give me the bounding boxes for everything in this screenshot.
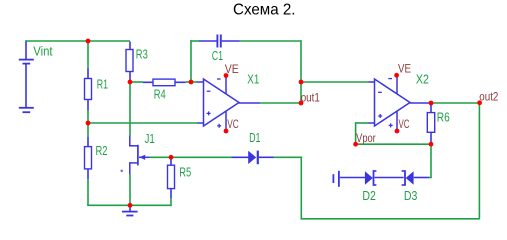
svg-text:J1: J1: [145, 132, 155, 146]
wire battery top stub: [25, 40, 27, 42]
wire R5 bottom lead: [170, 199, 172, 207]
svg-text:VC: VC: [227, 119, 239, 131]
diode D2: [365, 170, 377, 186]
wire R1 bottom lead: [87, 111, 89, 124]
diode D3: [402, 170, 414, 186]
wire C1 top left: [190, 40, 199, 42]
transistor J1: [129, 136, 150, 175]
wire C1 riser left: [190, 40, 192, 82]
node Vpor: [353, 142, 358, 147]
op-amp X2 polarity marks: [378, 79, 393, 128]
resistor R5: [168, 159, 175, 199]
wire right edge riser: [478, 103, 480, 219]
node VE pin X2: [394, 73, 399, 78]
node ground junction: [128, 203, 133, 208]
wire X2 plus riser: [355, 122, 357, 144]
wire out2 row: [431, 102, 480, 104]
wire out1 riser: [300, 40, 302, 103]
wire gate row: [150, 156, 232, 158]
wire right riser to bottom rail: [300, 157, 302, 219]
resistor R1: [85, 68, 92, 111]
svg-text:C1: C1: [212, 49, 223, 63]
wire R1 top lead: [87, 40, 89, 68]
wire D3 right lead: [414, 177, 429, 179]
wire X2 minus input: [301, 81, 369, 83]
wire bottom left rail: [87, 204, 171, 206]
op-amp X2: [369, 75, 430, 131]
capacitor C1: [199, 35, 240, 48]
wire node R3/R4 to R4: [130, 81, 143, 83]
wire Vpor row: [356, 143, 431, 145]
svg-text:R3: R3: [136, 48, 148, 62]
node out2: [477, 100, 482, 105]
node plus rail left: [86, 121, 91, 126]
battery Vint: [19, 42, 34, 112]
node VC pin X2: [395, 129, 400, 134]
ground: [122, 205, 138, 215]
wire J1 drain riser: [129, 82, 131, 136]
svg-text:D2: D2: [362, 189, 376, 203]
svg-text:VC: VC: [399, 119, 410, 131]
node R5 top: [169, 155, 174, 160]
node VE pin X1: [224, 73, 229, 78]
wire bottom rail: [301, 218, 480, 220]
stray dot mark: [121, 170, 123, 172]
resistor R2: [85, 137, 92, 179]
wire C1 top right: [240, 40, 302, 42]
svg-text:R6: R6: [437, 110, 450, 124]
transistor J1 gate arrow: [139, 155, 145, 160]
node VC pin X1: [224, 129, 229, 134]
wire D3 riser: [430, 144, 432, 177]
svg-text:X1: X1: [247, 73, 259, 87]
op-amp X1 polarity marks: [207, 79, 222, 128]
node inverting input X1: [189, 80, 194, 85]
wire X1 plus input rail: [88, 122, 198, 124]
node top rail R1: [86, 39, 91, 44]
resistor R3: [126, 42, 133, 81]
wire top rail: [26, 40, 130, 42]
op-amp X1: [198, 76, 261, 132]
resistor R4: [143, 79, 186, 86]
wire R2 top lead: [87, 123, 89, 137]
svg-text:R2: R2: [96, 144, 108, 158]
svg-text:R5: R5: [179, 165, 191, 179]
svg-text:D3: D3: [404, 189, 418, 203]
svg-text:D1: D1: [249, 131, 260, 145]
node R6 bottom: [429, 142, 434, 147]
svg-text:X2: X2: [416, 73, 429, 87]
svg-text:R4: R4: [154, 87, 166, 101]
node X2 input branch: [299, 80, 304, 85]
wire X1 output: [260, 102, 301, 104]
svg-text:out1: out1: [301, 92, 320, 104]
resistor R6: [427, 104, 434, 143]
svg-text:Vpor: Vpor: [356, 133, 376, 145]
svg-text:R1: R1: [97, 78, 108, 92]
diode D1: [232, 151, 274, 165]
battery cell near D2: [333, 171, 365, 187]
node out1: [299, 101, 304, 106]
svg-text:Схема 2.: Схема 2.: [233, 1, 296, 18]
wire J1 source lead: [129, 175, 131, 206]
node R3 R4 junction: [128, 80, 133, 85]
wire D3 riser bottom corner: [429, 177, 432, 179]
wire D1 to corner: [274, 156, 302, 158]
svg-text:VE: VE: [398, 64, 411, 76]
wire D2 to D3: [375, 177, 404, 179]
wire R4 to inverting node: [186, 81, 191, 83]
wire inverting node to X1 minus input: [191, 81, 198, 83]
node R6 top: [429, 101, 434, 106]
svg-text:Vint: Vint: [33, 44, 53, 58]
svg-text:out2: out2: [479, 91, 498, 103]
wire X2 plus row: [356, 122, 369, 124]
wire R2 bottom lead: [87, 179, 89, 205]
